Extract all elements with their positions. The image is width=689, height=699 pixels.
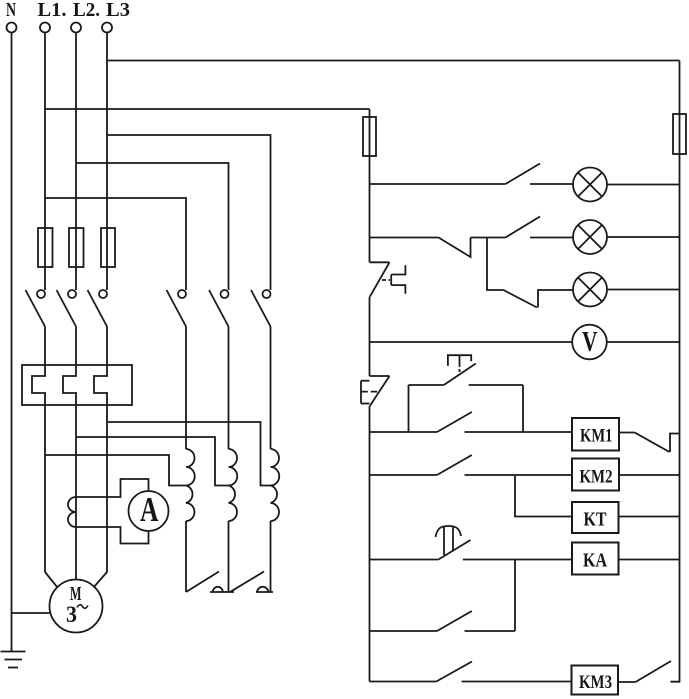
svg-text:N: N	[6, 0, 16, 21]
lamp row 1 wire left	[370, 183, 506, 185]
thermal relay FR box	[22, 365, 132, 405]
contactor KM2 pole 3	[251, 290, 271, 327]
contactor KM1 star contact 1	[186, 572, 234, 593]
wire L3 tap feed	[107, 422, 271, 486]
svg-text:KA: KA	[583, 551, 607, 572]
svg-text:L3: L3	[106, 0, 130, 21]
KA row wire mid	[463, 559, 572, 561]
coil KM1	[572, 418, 619, 451]
coil KT	[572, 502, 619, 533]
contact HL1 switch	[506, 164, 541, 185]
wire contact1 to coil1	[185, 327, 187, 450]
wire KA row to lower row	[514, 560, 516, 632]
wire coil2 bottom	[228, 521, 230, 592]
contact KM interlock bottom	[636, 661, 672, 682]
stop button SB1	[370, 262, 406, 297]
KM2 row wire left	[370, 474, 438, 476]
voltmeter PV	[572, 325, 607, 360]
KM3 row wire left	[370, 681, 437, 683]
wire L3 heater to motor	[94, 405, 108, 588]
coil KM3	[572, 666, 619, 695]
wire L2 heater to motor	[75, 405, 77, 580]
svg-text:3: 3	[66, 602, 77, 627]
thermal relay FR heater 3	[94, 365, 108, 405]
svg-text:L2.: L2.	[73, 0, 100, 21]
wire L1 branch to contact column 1	[45, 198, 186, 290]
svg-text:KT: KT	[584, 510, 607, 531]
right rail top	[670, 61, 679, 682]
contact KM2 interlock	[619, 433, 680, 453]
wire L2 branch to contact column 2	[76, 163, 229, 290]
self hold riser left	[408, 385, 410, 432]
wire L1 heater to motor	[45, 405, 58, 588]
svg-text:A: A	[140, 490, 159, 529]
terminal L3	[102, 23, 112, 33]
KT row wire right	[619, 516, 680, 518]
svg-text:KM2: KM2	[580, 468, 613, 488]
contact KM3 aux	[437, 611, 472, 631]
lamp row 1 wire mid	[530, 183, 573, 185]
lamp row 2 wire right	[607, 236, 680, 238]
wire L1 tap feed	[45, 455, 186, 486]
autotransformer coil T3	[271, 449, 280, 521]
wire row2 to row3	[487, 238, 504, 291]
svg-text:L1.: L1.	[38, 0, 67, 21]
lamp row 3 wire right	[607, 289, 680, 291]
contact KT delayed	[436, 526, 471, 560]
wire L2 vertical top	[75, 33, 77, 291]
wire contact3 to coil3	[270, 327, 272, 450]
wire CT to ammeter bottom	[76, 527, 149, 544]
lamp HL2	[573, 220, 607, 254]
wire L1 vertical top	[44, 33, 46, 291]
lamp HL1	[573, 168, 607, 202]
contactor KM2 pole 1	[167, 290, 187, 327]
self hold riser right	[522, 385, 524, 432]
contact NC row 2	[439, 238, 506, 258]
autotransformer coil T2	[229, 449, 238, 521]
fuse FU2	[69, 228, 84, 267]
wire coil3 bottom	[270, 521, 272, 592]
KM2 row wire mid	[465, 474, 573, 476]
wire contact2 to coil2	[228, 327, 230, 450]
contactor KM2 pole 2	[209, 290, 229, 327]
terminal N	[7, 23, 17, 33]
switch QS pole 3	[88, 290, 108, 327]
KM1 row wire left	[370, 431, 438, 433]
wire CT to ammeter top	[76, 479, 149, 497]
terminal L2	[71, 23, 81, 33]
wire switch3 to thermal relay	[106, 327, 108, 366]
lower row wire right	[465, 630, 516, 632]
ground	[1, 652, 26, 668]
self hold wire right	[469, 384, 523, 386]
contact row 3	[504, 290, 574, 308]
contact KM1 aux	[437, 412, 472, 432]
switch QS pole 2	[57, 290, 77, 327]
thermal relay FR heater 1	[32, 365, 46, 405]
wire N to motor	[12, 612, 50, 614]
jog button SB3	[444, 355, 476, 385]
ammeter A	[129, 490, 169, 531]
coil KM2	[572, 459, 619, 491]
left control rail mid	[369, 297, 371, 376]
lamp row 2 wire mid	[530, 237, 573, 239]
KM2 row wire right	[619, 474, 680, 476]
wire L2 tap feed	[76, 437, 229, 486]
lower row wire left	[370, 630, 438, 632]
fuse FU5	[673, 114, 686, 154]
KA row wire left	[370, 559, 439, 561]
autotransformer coil T1	[186, 449, 195, 521]
wire coil1 bottom	[185, 521, 187, 592]
fuse FU3	[101, 228, 115, 267]
svg-text:KM1: KM1	[580, 427, 613, 447]
left control rail bottom	[369, 406, 371, 682]
KM3 row wire right	[618, 681, 636, 683]
wire switch1 to thermal relay	[44, 327, 46, 366]
contact row KM3	[436, 662, 472, 682]
wire KM2 row to KT row	[515, 475, 572, 517]
contact KA aux row2	[437, 455, 472, 475]
start button SB2	[361, 376, 390, 406]
voltmeter row wire right	[607, 341, 680, 343]
voltmeter row wire left	[370, 341, 573, 343]
fuse FU1	[38, 228, 53, 267]
wire L3 branch to contact column 3	[107, 135, 271, 290]
wire N vertical	[11, 33, 13, 652]
self hold wire left	[409, 384, 444, 386]
contactor KM1 star contact 2	[230, 572, 273, 593]
svg-text:KM3: KM3	[579, 673, 612, 693]
motor M	[50, 580, 103, 633]
lamp row 1 wire right	[607, 184, 680, 186]
wire switch2 to thermal relay	[75, 327, 77, 366]
terminal L1	[40, 23, 50, 33]
svg-text:V: V	[582, 327, 598, 358]
current transformer TA	[68, 497, 76, 527]
wire L1 to left control rail	[45, 108, 370, 110]
contact HL2 switch	[506, 217, 541, 238]
lamp row 2 wire left	[370, 237, 439, 239]
coil KA	[572, 543, 619, 575]
wire L3 vertical top	[106, 33, 108, 291]
thermal relay FR heater 2	[63, 365, 77, 405]
KA row wire right	[619, 559, 680, 561]
fuse FU4	[363, 117, 376, 156]
KM1 row wire mid	[465, 431, 573, 433]
KM3 row wire mid	[462, 681, 572, 683]
switch QS pole 1	[26, 290, 46, 327]
wire L3 to right rail (top)	[107, 60, 680, 62]
left control rail top	[369, 109, 371, 262]
lamp HL3	[573, 273, 607, 307]
